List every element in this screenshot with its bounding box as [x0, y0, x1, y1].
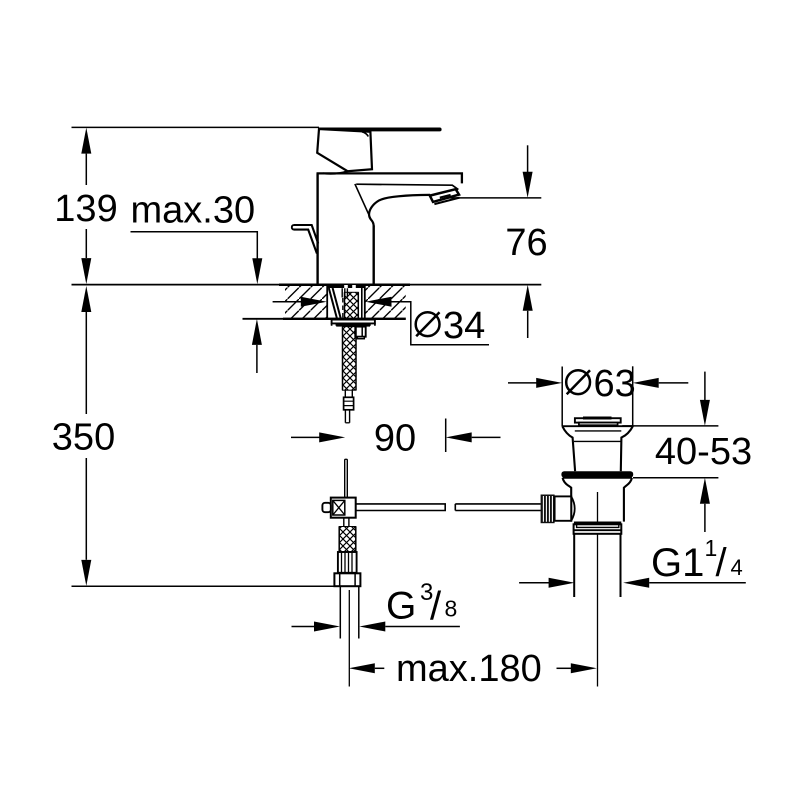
svg-text:max.180: max.180: [396, 648, 542, 690]
svg-text:/: /: [430, 585, 442, 629]
svg-text:34: 34: [443, 305, 485, 347]
svg-text:76: 76: [505, 222, 547, 264]
svg-text:max.30: max.30: [131, 189, 256, 231]
svg-text:8: 8: [445, 596, 458, 622]
svg-text:4: 4: [731, 555, 743, 580]
svg-text:G: G: [386, 584, 416, 627]
svg-text:/: /: [716, 541, 728, 585]
svg-text:63: 63: [594, 363, 636, 405]
svg-text:40-53: 40-53: [655, 431, 752, 473]
svg-text:350: 350: [52, 417, 115, 459]
svg-text:90: 90: [374, 418, 416, 460]
svg-text:G1: G1: [651, 541, 704, 585]
svg-text:139: 139: [54, 188, 117, 230]
